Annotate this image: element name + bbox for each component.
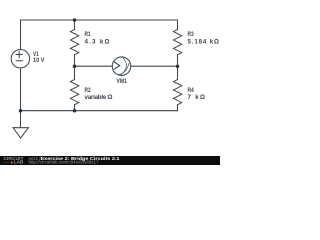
wire left branch top (V1 top lead) bbox=[20, 20, 22, 50]
svg-text:4.3 kΩ: 4.3 kΩ bbox=[85, 39, 110, 46]
svg-text:R2: R2 bbox=[85, 87, 92, 94]
svg-text:variable Ω: variable Ω bbox=[85, 94, 113, 101]
svg-text:7 kΩ: 7 kΩ bbox=[188, 94, 206, 101]
svg-text:R1: R1 bbox=[85, 31, 92, 38]
wire bridge right (VM1 to node B) bbox=[131, 65, 178, 67]
resistor R4 bbox=[173, 66, 181, 111]
voltage source V1 bbox=[11, 50, 30, 69]
voltmeter VM1 bbox=[112, 57, 131, 76]
wire top rail bbox=[21, 19, 178, 21]
svg-text:10 V: 10 V bbox=[33, 57, 45, 64]
svg-text:5.184 kΩ: 5.184 kΩ bbox=[188, 39, 220, 46]
junction bottom rail / R2 bbox=[73, 109, 77, 113]
svg-text:R4: R4 bbox=[188, 87, 195, 94]
svg-text:LAB: LAB bbox=[14, 159, 24, 164]
svg-text:http://circuitlab.com/c64nd3ts: http://circuitlab.com/c64nd3ts69z17 bbox=[29, 159, 100, 164]
resistor R2 bbox=[70, 66, 78, 111]
svg-text:VM1: VM1 bbox=[117, 78, 128, 85]
junction bottom rail / ground bbox=[19, 109, 23, 113]
wire bottom rail bbox=[21, 110, 178, 112]
junction top rail / R1 bbox=[73, 18, 77, 22]
wire left branch bottom (V1 bottom lead) bbox=[20, 68, 22, 111]
wire bridge left (node A to VM1) bbox=[75, 65, 113, 67]
watermark bar bbox=[0, 156, 220, 165]
ground bbox=[13, 111, 29, 138]
junction node B bbox=[176, 64, 180, 68]
resistor R3 bbox=[173, 20, 181, 66]
svg-text:‒ ‒: ‒ ‒ bbox=[4, 159, 10, 164]
resistor R1 bbox=[70, 20, 78, 66]
svg-text:R3: R3 bbox=[188, 31, 195, 38]
junction node A bbox=[73, 64, 77, 68]
